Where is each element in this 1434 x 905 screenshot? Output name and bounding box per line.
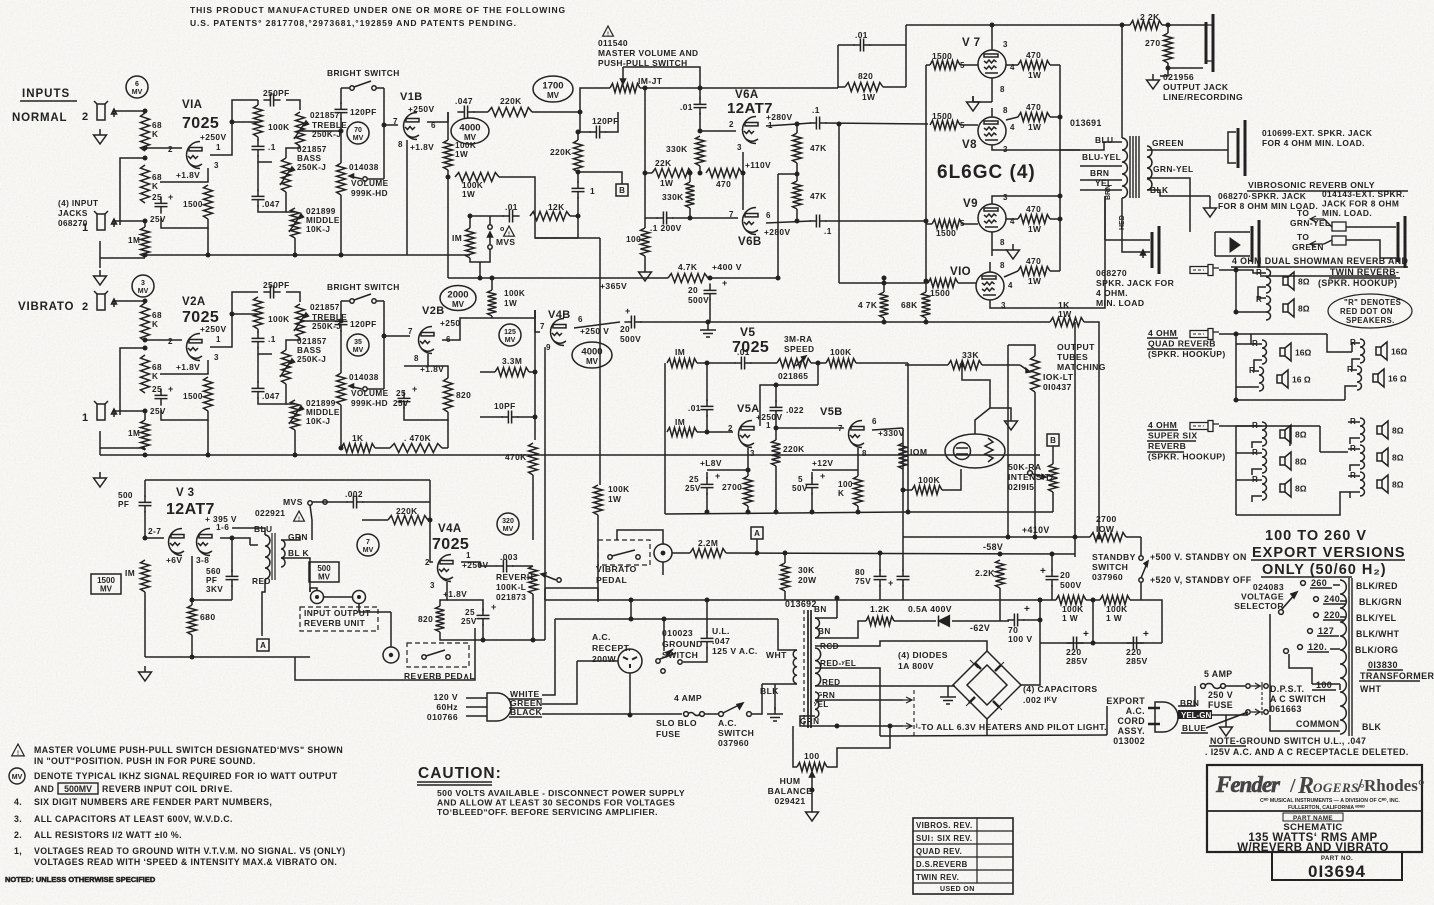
svg-text:16 Ω: 16 Ω	[1292, 375, 1311, 385]
svg-text:BLK/YEL: BLK/YEL	[1356, 613, 1397, 623]
svg-text:1M: 1M	[128, 429, 140, 438]
svg-text:PF: PF	[118, 500, 129, 509]
junction	[481, 638, 486, 643]
wire	[811, 493, 813, 512]
wire	[1345, 386, 1357, 400]
junction	[746, 510, 751, 515]
svg-text:013002: 013002	[1113, 736, 1145, 746]
junction	[230, 536, 235, 541]
wire	[908, 511, 1053, 513]
wire	[257, 329, 259, 333]
svg-text:+250: +250	[440, 318, 460, 328]
capacitor .1 coupling	[572, 181, 585, 198]
wire down to 100K 1W	[599, 238, 601, 485]
wire 10M branch	[902, 428, 904, 537]
treble wiper	[294, 121, 309, 139]
resistor 100K	[826, 359, 856, 368]
svg-text:8Ω: 8Ω	[1392, 426, 1404, 436]
reverb pot contact	[557, 578, 561, 582]
svg-text:3-8: 3-8	[196, 555, 209, 565]
wire	[340, 118, 342, 163]
wire	[879, 553, 881, 571]
svg-text:.047: .047	[712, 636, 730, 646]
wire	[1236, 452, 1250, 454]
speaker supersix L1	[1280, 425, 1291, 443]
warning MVS 2	[294, 511, 305, 521]
resistor 330K	[686, 182, 695, 208]
wire RCA to footswitch	[390, 612, 392, 647]
wire	[960, 124, 978, 126]
ground bus vibrato channel	[100, 454, 1040, 456]
svg-text:TUBES: TUBES	[1057, 352, 1088, 362]
wire	[1236, 270, 1266, 273]
wire	[762, 683, 775, 685]
junction	[1166, 66, 1171, 71]
svg-text:1,: 1,	[14, 846, 22, 856]
svg-text:50K-RA: 50K-RA	[1008, 462, 1041, 472]
ground BLK	[1204, 202, 1217, 217]
wire	[857, 448, 859, 476]
svg-text:16Ω: 16Ω	[1391, 347, 1407, 357]
svg-text:25V: 25V	[685, 484, 701, 493]
bright switch	[350, 81, 376, 90]
svg-text:7025: 7025	[182, 115, 219, 132]
svg-text:R: R	[1256, 295, 1262, 304]
ground output jack	[1147, 74, 1160, 89]
matching pot wiper	[1020, 365, 1030, 373]
phone plug dual showman	[1190, 265, 1219, 276]
resistor 2700 10W	[1090, 533, 1126, 542]
wire quad top	[1219, 333, 1327, 335]
svg-text:FUSE: FUSE	[656, 729, 681, 739]
output tube V8	[978, 117, 1006, 145]
wire	[645, 172, 652, 174]
logo box divider	[1207, 810, 1422, 812]
wire green	[542, 661, 577, 704]
triode V3b	[197, 529, 213, 556]
triode V3a	[169, 529, 185, 556]
wire	[440, 632, 545, 640]
svg-text:25V: 25V	[150, 407, 166, 416]
svg-text:+250V: +250V	[200, 132, 226, 142]
svg-text:1: 1	[216, 335, 221, 344]
svg-text:OUTPUT: OUTPUT	[1057, 342, 1095, 352]
svg-text:220K: 220K	[783, 444, 805, 454]
wire	[99, 431, 101, 455]
resistor 68K	[141, 303, 150, 341]
wire	[811, 790, 813, 806]
svg-text:22K: 22K	[655, 158, 672, 168]
wire selector common down	[1269, 614, 1271, 712]
resistor 1M	[141, 560, 150, 592]
wire to ground bus	[207, 228, 209, 255]
svg-text:2: 2	[168, 337, 173, 346]
svg-text:100: 100	[1316, 680, 1332, 690]
svg-text:THIS PRODUCT MANUFACTURED U: THIS PRODUCT MANUFACTURED UNDER ONE OR M…	[190, 5, 566, 15]
wire	[1236, 343, 1251, 345]
wire	[947, 686, 949, 690]
wire treble wiper v2	[300, 320, 341, 322]
wire	[838, 44, 855, 46]
wire	[1130, 600, 1162, 643]
potentiometer treble v2	[296, 304, 305, 338]
resistor 100K	[854, 476, 863, 506]
svg-text:014038: 014038	[349, 163, 379, 172]
wire	[404, 354, 428, 366]
capacitor 560PF	[226, 569, 239, 586]
svg-text:.01: .01	[855, 30, 868, 40]
wire	[1050, 64, 1060, 66]
capacitor 5/50V	[806, 477, 819, 494]
wire	[231, 538, 233, 572]
svg-text:IM: IM	[125, 568, 135, 578]
junction	[810, 788, 815, 793]
svg-text:20: 20	[1060, 570, 1070, 580]
export plug	[1155, 702, 1178, 732]
wire from V2B	[492, 310, 535, 318]
svg-text:+: +	[1143, 629, 1149, 640]
svg-text:A: A	[754, 529, 760, 538]
svg-text:QUAD REVERB: QUAD REVERB	[1148, 339, 1216, 349]
wire up to V4B cathode	[544, 347, 546, 640]
bright switch v2	[350, 294, 376, 303]
svg-text:CORD: CORD	[1117, 716, 1145, 726]
svg-text:IM-JT: IM-JT	[638, 76, 663, 86]
wire BRN return	[1080, 196, 1105, 308]
svg-text:6: 6	[578, 315, 583, 324]
junction	[698, 86, 703, 91]
AC receptacle	[618, 649, 642, 673]
underline	[509, 698, 542, 700]
junction	[1091, 641, 1096, 646]
resistor 68K	[141, 165, 150, 203]
output jack	[1206, 14, 1213, 72]
svg-text:010023: 010023	[662, 628, 693, 638]
svg-text:1W: 1W	[660, 178, 673, 188]
svg-text:SPEAKERS.: SPEAKERS.	[1346, 316, 1395, 325]
wire	[1348, 421, 1360, 423]
wire	[1346, 240, 1396, 258]
underline	[1261, 576, 1352, 578]
capacitor 80/75V	[874, 569, 887, 586]
junction	[1038, 618, 1043, 623]
svg-text:+500 V. STANDBY ON: +500 V. STANDBY ON	[1150, 552, 1247, 562]
junction	[835, 596, 840, 601]
speaker quad 2	[1277, 370, 1288, 388]
svg-text:MV: MV	[318, 573, 331, 582]
junction	[1091, 598, 1096, 603]
wire	[796, 124, 798, 133]
svg-text:JACK FOR 8 OHM: JACK FOR 8 OHM	[1322, 199, 1399, 209]
svg-text:BLK: BLK	[1362, 722, 1382, 732]
svg-text:FUSE: FUSE	[1208, 700, 1233, 710]
wire	[796, 209, 798, 221]
svg-text:-58V: -58V	[983, 542, 1003, 552]
svg-text:820: 820	[858, 71, 873, 81]
wire	[1160, 63, 1168, 76]
svg-text:200W: 200W	[592, 654, 617, 664]
svg-text:REVERB UNIT: REVERB UNIT	[304, 618, 366, 628]
svg-text:260: 260	[1311, 578, 1327, 588]
wire to grid V5B	[776, 427, 844, 429]
svg-text:(4) DIODES: (4) DIODES	[898, 650, 948, 660]
svg-text:011540: 011540	[598, 38, 628, 48]
svg-text:270: 270	[1145, 38, 1161, 48]
underline	[20, 100, 77, 102]
wire	[905, 25, 907, 87]
junction	[795, 219, 800, 224]
resistor 68K	[922, 292, 931, 318]
output tube V7	[978, 50, 1006, 78]
RCA jack output	[311, 591, 324, 604]
svg-text:3: 3	[1003, 40, 1008, 49]
svg-text:(SPKR. HOOKUP): (SPKR. HOOKUP)	[1148, 452, 1226, 462]
014143 plug contact	[1332, 222, 1346, 231]
wire	[1060, 149, 1080, 151]
svg-text:1W: 1W	[1058, 309, 1072, 319]
wire to master volume	[532, 111, 580, 113]
junction	[705, 510, 710, 515]
svg-text:.022: .022	[786, 405, 804, 415]
svg-text:2: 2	[82, 111, 89, 123]
triode V2B	[419, 327, 435, 354]
wire	[706, 493, 708, 512]
wire loop left	[340, 88, 342, 104]
wire to V2B grid	[384, 335, 410, 337]
svg-text:-62V: -62V	[970, 623, 990, 633]
svg-text:ALL RESISTORS I/2 WATT ±I0 %: ALL RESISTORS I/2 WATT ±I0 %.	[34, 830, 182, 840]
svg-text:240: 240	[1324, 594, 1340, 604]
underline	[1147, 348, 1212, 350]
svg-text:8: 8	[414, 354, 419, 363]
wire plate V2A	[210, 314, 258, 347]
underline	[1251, 559, 1405, 561]
wire GREEN	[1147, 149, 1228, 151]
svg-text:SLO BLO: SLO BLO	[656, 718, 697, 728]
junction	[755, 551, 760, 556]
svg-text:680: 680	[200, 612, 216, 622]
resistor 2.2K	[996, 560, 1005, 588]
svg-text:BL K: BL K	[288, 548, 309, 558]
speaker quad 1	[1280, 343, 1291, 361]
svg-text:BLUE: BLUE	[1182, 723, 1206, 733]
svg-text:.003: .003	[500, 552, 518, 562]
wire tap	[1330, 648, 1340, 650]
junction	[1234, 268, 1239, 273]
svg-text:021857: 021857	[297, 145, 327, 154]
svg-text:1: 1	[590, 186, 595, 196]
svg-text:FOR 4 OHM MIN. LOAD.: FOR 4 OHM MIN. LOAD.	[1262, 138, 1365, 148]
svg-text:+1.8V: +1.8V	[410, 142, 434, 152]
svg-text:8Ω: 8Ω	[1295, 430, 1307, 440]
svg-text:VIA: VIA	[182, 99, 202, 111]
svg-text:8Ω: 8Ω	[1295, 457, 1307, 467]
resistor 100K 1W	[1100, 596, 1130, 605]
signal level marker 3 MV	[132, 275, 154, 297]
wire	[570, 215, 578, 217]
wire 47K midpoint	[778, 173, 797, 175]
wire	[544, 588, 546, 600]
svg-text:029421: 029421	[774, 796, 805, 806]
wire bridge out	[1021, 643, 1040, 685]
wire	[1250, 425, 1262, 427]
resistor 100K	[254, 297, 263, 329]
svg-text:320: 320	[502, 518, 514, 525]
resistor 47K	[793, 133, 802, 163]
svg-text:TRANSFORMER: TRANSFORMER	[1360, 671, 1434, 681]
ground input bus	[94, 270, 107, 285]
wire	[482, 624, 484, 640]
junction	[490, 276, 495, 281]
reverb transformer secondary	[281, 540, 285, 567]
svg-text:02I9I5: 02I9I5	[1008, 482, 1034, 492]
junction	[1058, 217, 1063, 222]
wire prong	[466, 697, 487, 699]
wire plate V1A to tone stack	[210, 122, 258, 155]
svg-text:MV: MV	[547, 91, 560, 100]
wire	[1178, 686, 1195, 706]
junction	[428, 518, 433, 523]
svg-text:MIDDLE: MIDDLE	[306, 216, 340, 225]
wire BN2 to 1.2K	[815, 621, 866, 638]
junction	[835, 724, 840, 729]
phone plug quad	[1190, 329, 1219, 340]
speaker jack 068270	[1152, 226, 1159, 274]
resistor 1.2K	[866, 617, 894, 626]
svg-text:1 W: 1 W	[1106, 613, 1122, 623]
svg-text:MV: MV	[100, 585, 113, 594]
speaker quad 4	[1373, 369, 1384, 387]
svg-text:(SPKR. HOOKUP): (SPKR. HOOKUP)	[1148, 349, 1226, 359]
svg-text:999K-HD: 999K-HD	[351, 399, 388, 408]
wire	[905, 364, 948, 366]
wire mixer node	[535, 237, 578, 239]
wire to V7/V9 grids	[925, 65, 927, 224]
wire	[442, 447, 448, 449]
resistor 100K	[912, 486, 942, 495]
underline	[1209, 745, 1246, 747]
svg-text:BRN: BRN	[1090, 168, 1109, 178]
junction	[143, 156, 148, 161]
svg-text:014143-EXT. SPKR.: 014143-EXT. SPKR.	[1322, 189, 1405, 199]
resistor 68K	[141, 113, 150, 151]
wire	[926, 223, 932, 225]
wire	[958, 282, 976, 284]
svg-text:250 V: 250 V	[1208, 690, 1233, 700]
svg-text:BLK/WHT: BLK/WHT	[1356, 629, 1400, 639]
junction	[998, 552, 1003, 557]
input jack 2	[94, 101, 117, 120]
svg-text:4 OHM: 4 OHM	[1148, 328, 1177, 338]
svg-text:1W: 1W	[1028, 122, 1041, 132]
resistor 820 1W	[845, 83, 883, 92]
wire plate V9	[992, 196, 1060, 204]
resistor 100K 1W	[455, 173, 499, 182]
wire screen bus	[1059, 65, 1061, 271]
speaker 8ohm dual 2	[1283, 299, 1294, 317]
svg-text:6: 6	[766, 211, 771, 220]
junction	[143, 146, 148, 151]
svg-text:3: 3	[737, 143, 742, 152]
wire	[534, 310, 536, 440]
wire to right pair	[1327, 334, 1352, 352]
svg-text:100K: 100K	[462, 181, 483, 190]
wire	[982, 364, 1020, 366]
wire	[207, 420, 209, 455]
svg-text:250K-J: 250K-J	[297, 355, 326, 364]
ground phase inverter	[639, 266, 652, 281]
svg-text:VIBROS. REV.: VIBROS. REV.	[916, 821, 973, 830]
capacitor .01	[502, 210, 519, 223]
svg-text:+L8V: +L8V	[700, 458, 722, 468]
junction	[578, 110, 583, 115]
wire	[490, 215, 504, 217]
wire grid V4A	[430, 502, 433, 562]
wire	[883, 86, 906, 88]
wire to RCA	[310, 588, 317, 592]
junction	[774, 383, 779, 388]
jack tip arrow	[1141, 250, 1146, 258]
wire	[286, 292, 300, 302]
wire	[1252, 469, 1262, 475]
wire	[1348, 448, 1360, 450]
wire loop left v2	[340, 301, 342, 316]
svg-text:V1B: V1B	[400, 91, 423, 103]
bass wiper	[280, 167, 295, 185]
wire	[883, 278, 885, 292]
wire	[1140, 582, 1142, 600]
wire	[1350, 465, 1360, 471]
wire matching to +410V	[1034, 392, 1036, 537]
capacitor .1	[809, 117, 826, 130]
wire	[775, 416, 777, 440]
svg-text:50V: 50V	[792, 484, 808, 493]
svg-text:K: K	[152, 320, 158, 329]
signal level marker 320 MV	[497, 513, 519, 535]
underline tap	[1310, 587, 1332, 589]
arrow green	[1310, 241, 1324, 247]
svg-text:285V: 285V	[1066, 656, 1088, 666]
wire loop right	[383, 88, 385, 179]
capacitor .047	[252, 381, 265, 398]
reverb transformer primary	[265, 535, 270, 579]
wire	[662, 562, 664, 575]
resistor 2700	[744, 476, 753, 506]
junction	[339, 446, 344, 451]
svg-text:068270·SPKR. JACK: 068270·SPKR. JACK	[1218, 191, 1306, 201]
wire	[1050, 270, 1060, 272]
MVS 2 contacts	[308, 501, 312, 505]
svg-text:+: +	[820, 471, 826, 481]
svg-text:MV: MV	[353, 135, 364, 142]
wire black	[542, 713, 682, 715]
wire grid V6B	[690, 217, 738, 219]
wire	[532, 475, 534, 540]
wire	[706, 415, 708, 432]
capacitor 220/285V a	[1066, 637, 1083, 650]
svg-text:500 VOLTS AVAILABLE - DISCONN: 500 VOLTS AVAILABLE - DISCONNECT POWER S…	[437, 788, 685, 798]
junction	[1234, 398, 1239, 403]
wire cathode V2A	[160, 360, 208, 374]
svg-text:MV: MV	[138, 288, 149, 295]
svg-text:1500: 1500	[936, 228, 956, 238]
svg-text:.1: .1	[268, 334, 276, 344]
junction	[960, 363, 965, 368]
wire	[1092, 600, 1094, 643]
hum balance wiper	[810, 772, 815, 790]
svg-text:25V: 25V	[393, 399, 409, 408]
wire	[672, 208, 690, 218]
